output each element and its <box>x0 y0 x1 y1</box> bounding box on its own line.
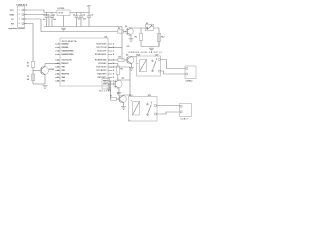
regulator U1 7805 <box>57 10 70 16</box>
svg-text:1: 1 <box>19 10 20 12</box>
connector CONN3 bottom <box>180 104 192 117</box>
capacitor C2 <box>50 13 54 27</box>
wire conn pin3 long signal to top driver <box>25 19 118 32</box>
svg-text:CON-2: CON-2 <box>181 119 188 121</box>
svg-text:RL2: RL2 <box>137 55 141 57</box>
svg-text:RB4: RB4 <box>62 76 65 79</box>
diode D2 (LED) <box>146 24 154 30</box>
wire RL2 to CONN bottom <box>161 71 186 74</box>
svg-text:35: 35 <box>57 70 59 72</box>
pin labels right inside <box>95 44 107 86</box>
ground MCU vss <box>108 84 109 88</box>
transistor Q2 <box>110 80 123 93</box>
right pins <box>108 44 112 84</box>
svg-text:Q1: Q1 <box>125 26 127 28</box>
wire MCU pin to 12V net <box>108 47 122 49</box>
capacitor C1 <box>45 13 49 27</box>
wire reset block bottom rail <box>33 83 45 85</box>
svg-text:RL3: RL3 <box>161 37 164 39</box>
resistor R3 (top driver base) <box>118 30 124 33</box>
svg-text:R5: R5 <box>135 37 137 39</box>
svg-text:BUZZER: BUZZER <box>100 91 112 93</box>
relay coil RL3 <box>157 34 160 42</box>
svg-text:RC2/CCP1: RC2/CCP1 <box>98 51 107 53</box>
svg-text:OMRON-G2R-14-DC12: OMRON-G2R-14-DC12 <box>129 51 162 54</box>
wire regulator output <box>70 12 89 14</box>
svg-text:RD2: RD2 <box>103 81 106 83</box>
svg-text:RC1/T1OSI: RC1/T1OSI <box>97 47 108 49</box>
svg-text:+5V: +5V <box>87 5 91 7</box>
svg-text:Q2: Q2 <box>122 78 124 80</box>
wire RL1 to CONN top <box>156 106 179 107</box>
svg-text:D2: D2 <box>146 23 148 25</box>
left pins <box>55 44 60 81</box>
wire coil to bottom rail <box>158 42 160 47</box>
power +5V flag <box>88 7 90 13</box>
resistor R5 <box>139 34 142 41</box>
wire buzzer collector down to bottom driver <box>108 67 130 95</box>
svg-text:RC4/SDI/SDA: RC4/SDI/SDA <box>95 59 107 62</box>
resistor R1 (reset pullup) <box>31 62 34 68</box>
svg-text:RB0/INT: RB0/INT <box>62 63 70 65</box>
svg-text:3: 3 <box>19 19 20 21</box>
svg-text:37: 37 <box>57 77 59 79</box>
svg-text:RC5/SDO: RC5/SDO <box>99 63 108 65</box>
pin labels left inside <box>62 43 75 83</box>
svg-text:regulator circuit: regulator circuit <box>8 27 25 30</box>
svg-text:C5: C5 <box>27 76 29 78</box>
svg-text:RA2/AN2/VREF-: RA2/AN2/VREF- <box>62 50 75 53</box>
svg-text:RL1: RL1 <box>129 95 133 97</box>
svg-text:C6: C6 <box>91 15 93 17</box>
svg-text:26: 26 <box>113 70 115 72</box>
wire top block bottom rail <box>141 46 159 48</box>
wire conn pin4 down to reset block <box>25 24 34 62</box>
svg-text:R6: R6 <box>121 69 123 71</box>
svg-text:Q3: Q3 <box>117 93 119 95</box>
svg-text:R7: R7 <box>110 96 112 98</box>
wire R5 to bottom rail <box>140 41 142 47</box>
svg-text:C3: C3 <box>73 15 75 17</box>
ground reset block <box>43 86 48 89</box>
svg-text:RB3/PGM: RB3/PGM <box>62 74 70 76</box>
svg-text:CONN-2: CONN-2 <box>186 80 193 82</box>
svg-text:Q5: Q5 <box>126 55 128 57</box>
svg-text:R1: R1 <box>27 62 29 64</box>
transistor Q4 <box>40 64 48 85</box>
transistor Q1 <box>124 28 134 39</box>
svg-text:RC7/RX/DT: RC7/RX/DT <box>97 70 108 72</box>
wire MCU pin to R4 <box>108 59 118 61</box>
connector J1 CON4 <box>18 6 27 28</box>
transistor Q5 <box>124 56 137 67</box>
svg-text:RC0/T1OSO: RC0/T1OSO <box>97 44 108 46</box>
wire MCU pin to buzzer resistor <box>108 64 118 67</box>
capacitor C4 <box>79 13 83 27</box>
svg-text:2: 2 <box>19 14 20 16</box>
svg-text:RA0/AN0: RA0/AN0 <box>62 43 69 46</box>
svg-text:GND: GND <box>10 14 15 16</box>
svg-text:R4: R4 <box>119 56 121 59</box>
connector CONN2 mid <box>185 66 196 79</box>
svg-text:19: 19 <box>113 74 115 76</box>
ground Q3 emitter <box>121 107 126 110</box>
svg-text:C2: C2 <box>53 15 55 17</box>
ground regulator <box>61 28 66 31</box>
svg-text:CONN-SIL4: CONN-SIL4 <box>16 4 28 7</box>
svg-text:RD0/PSP0: RD0/PSP0 <box>98 74 107 76</box>
svg-text:10u: 10u <box>43 19 46 21</box>
svg-text:RB1: RB1 <box>62 67 65 69</box>
svg-text:RB5: RB5 <box>62 81 65 83</box>
svg-text:U1 7805: U1 7805 <box>58 8 65 10</box>
regulator ground pin <box>63 16 65 27</box>
svg-text:17: 17 <box>113 51 115 53</box>
wire RL2 to CONN top <box>161 60 186 69</box>
svg-text:RC6/TX/CK: RC6/TX/CK <box>97 67 108 69</box>
relay RL2 <box>137 56 161 76</box>
svg-text:13: 13 <box>57 60 59 62</box>
svg-text:PIC16F877A: PIC16F877A <box>62 40 77 43</box>
wire Q4 collector to MCU <box>45 63 60 65</box>
svg-text:10k: 10k <box>27 65 30 67</box>
wire resistor to junction <box>32 68 34 85</box>
wire conn pin1 to regulator input <box>25 10 58 13</box>
svg-text:C1: C1 <box>43 15 45 17</box>
wire RL1 to CONN bottom <box>156 112 179 114</box>
wire base of Q4 <box>33 70 42 72</box>
svg-text:VI VO: VI VO <box>59 13 64 15</box>
resistor R6 <box>116 66 119 75</box>
svg-text:RA1/AN1: RA1/AN1 <box>62 46 69 49</box>
ground Q1 emitter <box>129 39 134 42</box>
svg-text:RC3/SCK/SCL: RC3/SCK/SCL <box>95 54 107 56</box>
wire MCU pin to bottom driver <box>108 81 111 99</box>
resistor R4 (mid driver base) <box>118 58 124 61</box>
ground rail <box>44 26 122 28</box>
svg-text:RB2: RB2 <box>62 70 65 72</box>
ground top block <box>149 48 154 51</box>
wire Q1 collector rail <box>131 28 159 47</box>
capacitor C6 <box>87 13 91 27</box>
pin numbers <box>57 44 114 83</box>
wire conn pin2 to ground rail <box>25 15 50 27</box>
svg-text:10u: 10u <box>78 18 81 20</box>
svg-text:20: 20 <box>113 77 115 79</box>
ground Q5 emitter <box>129 68 134 71</box>
svg-text:RA3/AN3/VREF+: RA3/AN3/VREF+ <box>62 53 75 56</box>
svg-text:16: 16 <box>113 47 115 49</box>
capacitor C5 (reset) <box>31 74 34 81</box>
svg-text:R3: R3 <box>118 28 120 30</box>
resistor R7 <box>111 97 117 100</box>
MCU U2 PIC16F877A <box>60 38 108 86</box>
buzzer LS1 <box>102 79 110 90</box>
wire left branch <box>140 28 142 34</box>
transistor Q3 <box>116 95 126 107</box>
connector pin numbers <box>19 10 20 26</box>
svg-text:38: 38 <box>57 81 59 83</box>
svg-text:18: 18 <box>113 54 115 56</box>
relay RL1 <box>129 97 158 122</box>
capacitor C3 <box>75 13 79 27</box>
svg-text:36: 36 <box>57 74 59 76</box>
wire R6 to Q2 <box>118 75 130 81</box>
svg-text:15: 15 <box>113 44 115 46</box>
wire rail riser to MCU pin <box>121 27 123 61</box>
ground Q2 emitter <box>117 93 122 96</box>
svg-text:OSC1/CLKIN: OSC1/CLKIN <box>62 60 73 62</box>
